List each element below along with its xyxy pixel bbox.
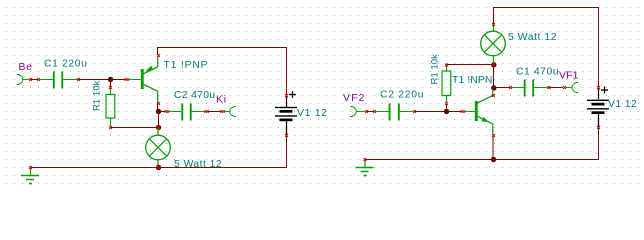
- svg-text:T1 !PNP: T1 !PNP: [164, 60, 209, 71]
- svg-text:C1 220u: C1 220u: [44, 58, 88, 69]
- svg-text:R1 10k: R1 10k: [429, 54, 440, 85]
- svg-text:VF1: VF1: [559, 71, 579, 82]
- svg-text:C2 220u: C2 220u: [380, 90, 424, 101]
- svg-text:C2 470u: C2 470u: [174, 90, 215, 101]
- svg-text:V1 12: V1 12: [608, 99, 637, 110]
- svg-text:Ki: Ki: [216, 94, 227, 105]
- svg-text:5 Watt 12: 5 Watt 12: [508, 32, 557, 43]
- svg-text:VF2: VF2: [343, 93, 366, 104]
- svg-text:5 Watt 12: 5 Watt 12: [174, 159, 222, 170]
- svg-text:V1 12: V1 12: [297, 108, 328, 119]
- svg-text:Be: Be: [19, 62, 33, 73]
- svg-text:T1 !NPN: T1 !NPN: [452, 75, 493, 86]
- svg-text:C1 470u: C1 470u: [516, 67, 559, 78]
- svg-text:R1 10k: R1 10k: [91, 80, 102, 111]
